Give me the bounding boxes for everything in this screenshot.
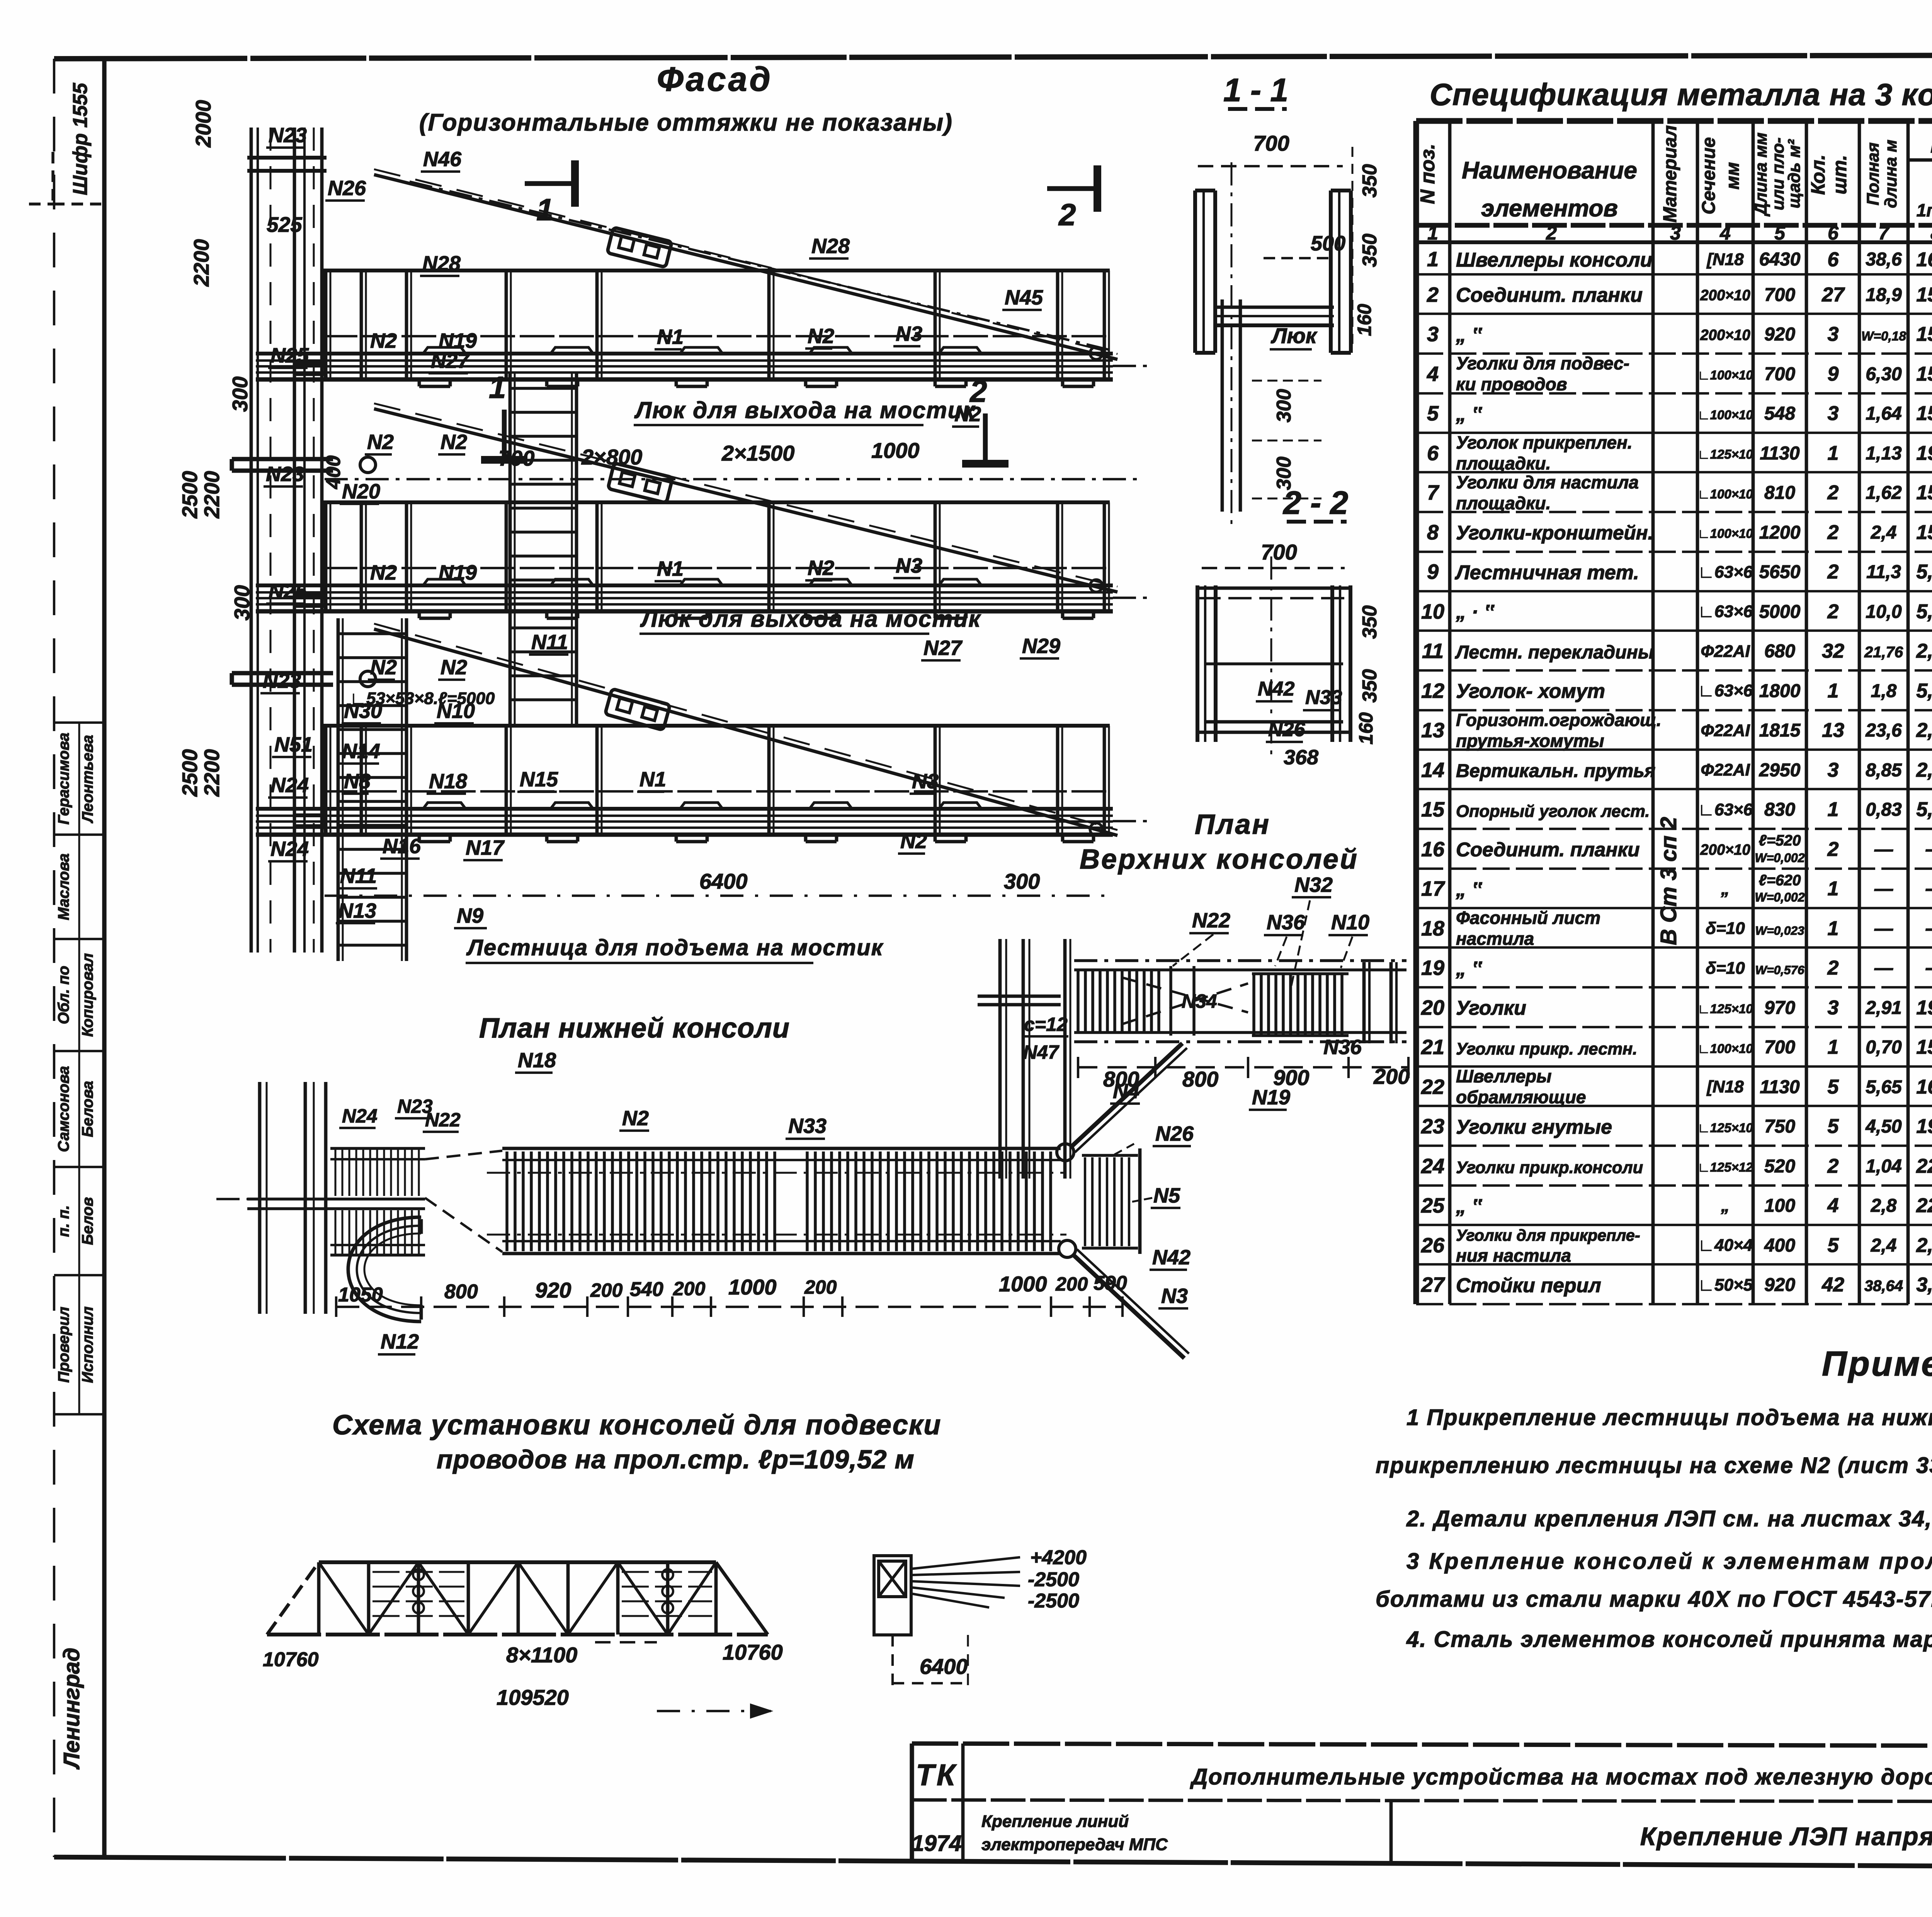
svg-text:4: 4 <box>1427 362 1439 386</box>
svg-text:5,72: 5,72 <box>1916 600 1932 623</box>
svg-text:2,98: 2,98 <box>1916 759 1932 781</box>
svg-text:N24: N24 <box>270 774 309 797</box>
svg-text:Обл. по: Обл. по <box>55 966 72 1024</box>
svg-text:19,1: 19,1 <box>1916 997 1932 1019</box>
svg-text:болтами из стали марки 40Х: болтами из стали марки 40Х по ГОСТ 4543-… <box>1376 1587 1932 1612</box>
svg-text:„ ‟: „ ‟ <box>1456 324 1482 346</box>
svg-text:N2: N2 <box>370 329 397 352</box>
svg-text:Крепление ЛЭП напряжением: Крепление ЛЭП напряжением 25-35 кВ (схем… <box>1640 1822 1932 1851</box>
svg-text:N2: N2 <box>622 1107 649 1130</box>
svg-text:Швеллеры: Швеллеры <box>1456 1066 1551 1086</box>
svg-text:1: 1 <box>1828 878 1839 900</box>
svg-text:100: 100 <box>1764 1196 1795 1216</box>
svg-text:шт.: шт. <box>1829 155 1850 194</box>
svg-text:21: 21 <box>1421 1036 1444 1059</box>
svg-text:—: — <box>1925 838 1932 861</box>
svg-text:„ ‟: „ ‟ <box>1456 878 1482 901</box>
svg-text:15,1: 15,1 <box>1916 402 1932 425</box>
svg-text:N3: N3 <box>1161 1284 1188 1308</box>
svg-text:2: 2 <box>1827 561 1839 583</box>
svg-text:20: 20 <box>1421 996 1444 1019</box>
svg-text:42: 42 <box>1821 1274 1844 1296</box>
svg-text:Верхних консолей: Верхних консолей <box>1080 844 1359 875</box>
svg-text:1: 1 <box>489 370 506 405</box>
svg-text:∟100×10: ∟100×10 <box>1697 526 1753 541</box>
svg-text:2: 2 <box>1546 222 1557 244</box>
svg-text:200: 200 <box>590 1279 623 1301</box>
svg-text:N36: N36 <box>1267 911 1305 934</box>
svg-text:970: 970 <box>1764 998 1795 1018</box>
svg-text:—: — <box>1874 879 1893 899</box>
svg-text:5: 5 <box>1828 1234 1839 1257</box>
svg-text:W=0,18: W=0,18 <box>1861 329 1906 344</box>
svg-text:1000: 1000 <box>999 1272 1047 1296</box>
svg-text:520: 520 <box>1764 1156 1795 1177</box>
svg-text:+4200: +4200 <box>1030 1546 1087 1569</box>
svg-text:[N18: [N18 <box>1706 250 1744 269</box>
svg-text:N2: N2 <box>367 430 394 454</box>
svg-text:Люк для выхода на мостик: Люк для выхода на мостик <box>640 606 981 632</box>
svg-text:200: 200 <box>1055 1273 1088 1295</box>
svg-text:N2: N2 <box>808 556 834 580</box>
svg-text:„ ‟: „ ‟ <box>1456 403 1482 425</box>
svg-text:1800: 1800 <box>1759 681 1801 701</box>
svg-text:920: 920 <box>1764 1275 1795 1295</box>
svg-text:План нижней консоли: План нижней консоли <box>479 1013 790 1044</box>
svg-text:12: 12 <box>1421 679 1444 703</box>
svg-text:16: 16 <box>1421 838 1445 861</box>
svg-text:1,64: 1,64 <box>1866 403 1901 424</box>
svg-text:N4: N4 <box>1113 1080 1139 1103</box>
svg-text:Фасад: Фасад <box>657 60 773 98</box>
svg-text:Лестница для подъема на мо: Лестница для подъема на мостик <box>466 935 884 960</box>
svg-text:Спецификация металла на 3 к: Спецификация металла на 3 консоли со смо… <box>1430 77 1932 112</box>
svg-text:800: 800 <box>444 1281 478 1303</box>
svg-text:Крепление линий: Крепление линий <box>981 1812 1129 1831</box>
svg-text:Швеллеры консоли: Швеллеры консоли <box>1456 249 1652 271</box>
svg-text:4,50: 4,50 <box>1865 1116 1902 1137</box>
svg-text:109520: 109520 <box>497 1685 569 1709</box>
svg-text:Уголки-кронштейн.: Уголки-кронштейн. <box>1456 522 1653 544</box>
svg-text:Кол.: Кол. <box>1807 155 1829 195</box>
svg-text:∟125×10: ∟125×10 <box>1697 1121 1753 1135</box>
svg-text:ния настила: ния настила <box>1456 1245 1571 1266</box>
svg-text:24: 24 <box>1421 1155 1444 1178</box>
svg-text:2,91: 2,91 <box>1865 998 1901 1018</box>
svg-text:-2500: -2500 <box>1028 1568 1079 1591</box>
svg-text:32: 32 <box>1822 640 1844 662</box>
svg-text:Герасимова: Герасимова <box>55 733 72 825</box>
svg-text:350: 350 <box>1359 606 1381 639</box>
svg-text:∟63×6: ∟63×6 <box>1698 602 1753 621</box>
svg-text:∟100×10: ∟100×10 <box>1697 487 1753 501</box>
svg-text:6: 6 <box>1828 248 1839 271</box>
svg-text:2: 2 <box>1827 838 1839 861</box>
svg-text:400: 400 <box>1764 1235 1795 1256</box>
svg-text:5,65: 5,65 <box>1866 1077 1902 1097</box>
svg-text:3: 3 <box>1828 323 1839 345</box>
svg-text:п. п.: п. п. <box>55 1205 72 1237</box>
svg-text:830: 830 <box>1764 799 1795 820</box>
svg-text:6: 6 <box>1427 442 1439 465</box>
svg-text:Лестничная тет.: Лестничная тет. <box>1454 561 1639 584</box>
svg-text:3,77: 3,77 <box>1916 1274 1932 1296</box>
svg-text:15,1: 15,1 <box>1916 481 1932 504</box>
svg-text:∟125×10: ∟125×10 <box>1697 1002 1753 1016</box>
svg-text:5: 5 <box>1427 402 1439 425</box>
svg-text:700: 700 <box>1253 131 1289 155</box>
svg-text:540: 540 <box>630 1278 663 1301</box>
svg-text:N2: N2 <box>900 830 927 853</box>
svg-text:6: 6 <box>1828 222 1839 244</box>
svg-text:Ф22АI: Ф22АI <box>1701 642 1750 661</box>
svg-text:3: 3 <box>1828 997 1839 1019</box>
svg-text:300: 300 <box>230 585 254 621</box>
svg-text:10760: 10760 <box>263 1648 319 1671</box>
svg-text:N25: N25 <box>269 580 307 603</box>
svg-text:2×1500: 2×1500 <box>721 441 794 465</box>
svg-text:ТК: ТК <box>916 1758 957 1792</box>
svg-text:Масса: Масса <box>1930 133 1932 157</box>
svg-text:N2: N2 <box>808 325 834 348</box>
svg-text:160: 160 <box>1355 712 1377 745</box>
svg-text:Самсонова: Самсонова <box>55 1066 72 1152</box>
svg-text:N23: N23 <box>269 124 307 147</box>
svg-text:11,3: 11,3 <box>1866 562 1901 582</box>
svg-text:прикреплению лестницы на с: прикреплению лестницы на схеме N2 (лист … <box>1376 1453 1932 1478</box>
svg-text:Лестн. перекладины: Лестн. перекладины <box>1455 642 1654 663</box>
svg-text:ки проводов: ки проводов <box>1456 374 1567 394</box>
svg-text:1: 1 <box>1828 917 1839 940</box>
svg-text:2,4: 2,4 <box>1871 522 1897 543</box>
svg-text:N18: N18 <box>518 1049 556 1072</box>
svg-text:N3: N3 <box>896 322 922 345</box>
svg-text:300: 300 <box>228 376 252 412</box>
svg-text:4: 4 <box>1827 1194 1839 1217</box>
svg-text:δ=10: δ=10 <box>1706 959 1745 978</box>
svg-text:700: 700 <box>1764 364 1795 384</box>
svg-text:350: 350 <box>1359 164 1381 198</box>
svg-text:W=0,023: W=0,023 <box>1755 924 1804 937</box>
svg-text:1 - 1: 1 - 1 <box>1223 72 1288 108</box>
svg-text:0,70: 0,70 <box>1866 1037 1902 1058</box>
svg-text:2,98: 2,98 <box>1916 719 1932 742</box>
svg-text:1: 1 <box>1828 798 1839 821</box>
svg-text:„: „ <box>1721 1196 1730 1215</box>
svg-text:„ ‟: „ ‟ <box>1456 958 1482 980</box>
svg-text:1 Прикрепление лестницы по: 1 Прикрепление лестницы подъема на нижню… <box>1406 1405 1932 1430</box>
svg-text:∟125×12: ∟125×12 <box>1697 1160 1753 1174</box>
svg-text:„ ‟: „ ‟ <box>1456 1195 1482 1218</box>
svg-text:∟100×10: ∟100×10 <box>1697 408 1753 422</box>
svg-text:Леонтьева: Леонтьева <box>79 735 96 823</box>
svg-text:Копировал: Копировал <box>79 953 96 1037</box>
svg-text:15,1: 15,1 <box>1916 1036 1932 1058</box>
svg-text:N2: N2 <box>370 561 397 584</box>
svg-text:300: 300 <box>1273 389 1295 423</box>
svg-text:3 Крепление консолей к эле: 3 Крепление консолей к элементам пролетн… <box>1406 1549 1932 1574</box>
svg-text:160: 160 <box>1354 304 1375 336</box>
svg-text:N51: N51 <box>274 733 313 756</box>
svg-text:[N18: [N18 <box>1706 1077 1744 1096</box>
svg-text:проводов на прол.стр. ℓр=10: проводов на прол.стр. ℓр=109,52 м <box>437 1445 915 1474</box>
svg-text:400: 400 <box>322 456 345 490</box>
svg-text:N23: N23 <box>263 669 301 692</box>
svg-text:368: 368 <box>1284 746 1318 769</box>
svg-text:Люк для выхода на мостик: Люк для выхода на мостик <box>634 397 975 423</box>
svg-text:5,72: 5,72 <box>1916 561 1932 583</box>
svg-text:2,42: 2,42 <box>1916 1234 1932 1257</box>
svg-text:200: 200 <box>804 1276 837 1298</box>
svg-text:Белов: Белов <box>79 1197 96 1245</box>
svg-text:Уголки прикр. лестн.: Уголки прикр. лестн. <box>1456 1040 1637 1058</box>
svg-text:1130: 1130 <box>1760 1077 1800 1097</box>
svg-text:21,76: 21,76 <box>1864 644 1903 661</box>
svg-text:(Горизонтальные оттяжки не: (Горизонтальные оттяжки не показаны) <box>419 109 953 136</box>
svg-text:27: 27 <box>1421 1273 1446 1296</box>
svg-text:13: 13 <box>1822 719 1844 742</box>
svg-text:Фасонный лист: Фасонный лист <box>1456 908 1600 928</box>
svg-text:1,04: 1,04 <box>1866 1156 1901 1177</box>
svg-text:N28: N28 <box>811 235 850 258</box>
svg-text:Шифр 1555: Шифр 1555 <box>69 83 92 196</box>
svg-text:8×1100: 8×1100 <box>506 1643 577 1667</box>
svg-text:7: 7 <box>1427 481 1440 504</box>
svg-text:1: 1 <box>1427 248 1439 271</box>
svg-text:N5: N5 <box>1153 1184 1180 1207</box>
svg-text:N33: N33 <box>1305 686 1342 709</box>
svg-text:-2500: -2500 <box>1028 1590 1079 1612</box>
svg-text:Исполнил: Исполнил <box>79 1306 96 1383</box>
svg-text:2: 2 <box>1827 957 1839 979</box>
svg-text:0,83: 0,83 <box>1866 799 1902 820</box>
svg-text:11: 11 <box>1422 640 1444 663</box>
svg-text:16,3: 16,3 <box>1916 1076 1932 1098</box>
svg-text:N42: N42 <box>1258 678 1294 700</box>
svg-text:„ · ‟: „ · ‟ <box>1456 601 1495 623</box>
svg-text:—: — <box>1925 957 1932 979</box>
svg-text:элементов: элементов <box>1481 195 1618 222</box>
svg-text:25: 25 <box>1421 1194 1445 1217</box>
svg-text:1,13: 1,13 <box>1866 443 1902 464</box>
svg-text:5: 5 <box>1828 1076 1839 1098</box>
svg-text:7: 7 <box>1878 222 1890 244</box>
svg-text:1: 1 <box>1427 222 1438 244</box>
svg-text:Стойки перил: Стойки перил <box>1456 1274 1601 1297</box>
svg-text:N16: N16 <box>383 835 421 858</box>
svg-text:1815: 1815 <box>1759 720 1801 741</box>
svg-text:8: 8 <box>1930 222 1932 244</box>
svg-text:200: 200 <box>673 1278 706 1300</box>
svg-text:c=12: c=12 <box>1024 1014 1068 1035</box>
svg-text:∟63×6: ∟63×6 <box>1698 563 1753 582</box>
svg-text:∟63×6: ∟63×6 <box>1698 800 1753 819</box>
svg-text:1200: 1200 <box>1759 522 1801 543</box>
svg-text:1: 1 <box>1828 1036 1839 1058</box>
svg-text:6400: 6400 <box>699 869 748 893</box>
svg-text:N14: N14 <box>342 740 380 763</box>
svg-text:2: 2 <box>1427 283 1439 306</box>
svg-text:N27: N27 <box>923 636 963 660</box>
svg-text:1000: 1000 <box>728 1275 777 1299</box>
svg-text:Материал: Материал <box>1660 125 1680 223</box>
svg-text:22,7: 22,7 <box>1916 1155 1932 1177</box>
svg-text:Уголок- хомут: Уголок- хомут <box>1456 680 1605 703</box>
svg-text:N1: N1 <box>657 325 684 349</box>
svg-text:1974: 1974 <box>912 1831 961 1856</box>
svg-text:19,1: 19,1 <box>1916 1115 1932 1138</box>
svg-text:Примечания:: Примечания: <box>1822 1345 1932 1383</box>
svg-text:настила: настила <box>1456 929 1534 949</box>
svg-text:Вертикальн. прутья: Вертикальн. прутья <box>1456 760 1655 781</box>
svg-text:—: — <box>1874 919 1893 939</box>
svg-text:∟125×10: ∟125×10 <box>1697 447 1753 461</box>
svg-text:N19: N19 <box>439 561 477 584</box>
svg-text:15,7: 15,7 <box>1916 323 1932 345</box>
svg-text:3: 3 <box>1828 402 1839 425</box>
svg-text:10: 10 <box>1421 600 1444 623</box>
svg-text:N9: N9 <box>457 904 483 927</box>
svg-text:N1: N1 <box>657 557 684 580</box>
svg-text:N19: N19 <box>1252 1086 1290 1109</box>
svg-text:прутья-хомуты: прутья-хомуты <box>1456 731 1604 751</box>
svg-text:N13: N13 <box>338 899 376 922</box>
svg-text:810: 810 <box>1764 483 1795 503</box>
svg-text:17: 17 <box>1421 877 1446 900</box>
svg-text:ℓ=520: ℓ=520 <box>1759 832 1801 849</box>
svg-text:Уголки гнутые: Уголки гнутые <box>1456 1116 1612 1138</box>
svg-text:Опорный уголок лест.: Опорный уголок лест. <box>1456 802 1650 821</box>
svg-text:2: 2 <box>1827 481 1839 504</box>
svg-text:200×10: 200×10 <box>1700 327 1750 344</box>
svg-text:350: 350 <box>1359 234 1381 267</box>
svg-text:∟53×53×8.ℓ=5000: ∟53×53×8.ℓ=5000 <box>350 689 495 708</box>
svg-text:N18: N18 <box>429 770 467 793</box>
svg-text:9: 9 <box>1828 363 1839 385</box>
svg-text:1000: 1000 <box>871 438 920 463</box>
svg-text:6,30: 6,30 <box>1866 364 1902 384</box>
svg-text:548: 548 <box>1764 403 1795 424</box>
svg-text:5,72: 5,72 <box>1916 680 1932 702</box>
svg-text:N20: N20 <box>342 480 380 503</box>
svg-text:Дополнительные устройства н: Дополнительные устройства на мостах под … <box>1190 1764 1932 1789</box>
svg-text:5: 5 <box>1828 1115 1839 1138</box>
svg-text:590: 590 <box>1094 1272 1127 1294</box>
svg-text:200×10: 200×10 <box>1700 842 1750 858</box>
svg-text:3: 3 <box>1828 759 1839 781</box>
svg-text:525: 525 <box>267 213 303 236</box>
svg-text:6430: 6430 <box>1759 249 1801 270</box>
svg-text:Люк: Люк <box>1270 323 1318 348</box>
svg-text:N24: N24 <box>270 837 309 861</box>
svg-text:электропередач МПС: электропередач МПС <box>981 1835 1168 1854</box>
svg-text:N2: N2 <box>440 656 467 679</box>
svg-text:Уголки: Уголки <box>1456 997 1526 1019</box>
svg-text:1,8: 1,8 <box>1871 681 1897 701</box>
svg-text:22: 22 <box>1421 1075 1444 1099</box>
svg-text:Соединит. планки: Соединит. планки <box>1456 839 1640 861</box>
svg-text:N19: N19 <box>439 329 477 352</box>
svg-text:N поз.: N поз. <box>1417 144 1439 204</box>
svg-text:N46: N46 <box>423 148 462 171</box>
svg-text:38,6: 38,6 <box>1866 249 1902 270</box>
svg-text:N47: N47 <box>1023 1041 1060 1063</box>
svg-text:длина м: длина м <box>1881 139 1900 208</box>
svg-text:19: 19 <box>1421 956 1444 980</box>
svg-text:δ=10: δ=10 <box>1706 919 1745 938</box>
svg-text:N17: N17 <box>466 836 505 859</box>
svg-text:Ленинград: Ленинград <box>59 1648 84 1770</box>
svg-text:13: 13 <box>1421 719 1444 742</box>
svg-text:680: 680 <box>1764 641 1795 662</box>
svg-text:1: 1 <box>1828 680 1839 702</box>
svg-text:1п.м: 1п.м <box>1917 200 1932 220</box>
svg-text:N36: N36 <box>1323 1036 1362 1059</box>
svg-text:В Ст 3 сп 2: В Ст 3 сп 2 <box>1656 817 1681 945</box>
svg-text:2000: 2000 <box>191 100 215 148</box>
svg-text:10,0: 10,0 <box>1866 602 1902 622</box>
svg-text:300: 300 <box>1004 869 1040 893</box>
svg-text:1050: 1050 <box>338 1284 383 1306</box>
svg-text:N34: N34 <box>1182 990 1217 1012</box>
svg-text:N22: N22 <box>425 1109 461 1131</box>
svg-text:∟63×6: ∟63×6 <box>1698 681 1753 700</box>
svg-text:Наименование: Наименование <box>1462 157 1637 184</box>
svg-text:W=0,002: W=0,002 <box>1755 890 1805 904</box>
svg-text:∟100×10: ∟100×10 <box>1697 368 1753 382</box>
svg-text:8: 8 <box>1427 521 1439 544</box>
svg-text:4. Сталь элементов консолей: 4. Сталь элементов консолей принята марк… <box>1406 1627 1932 1652</box>
svg-text:2: 2 <box>1827 1155 1839 1177</box>
svg-text:N28: N28 <box>422 252 461 275</box>
svg-text:N32: N32 <box>1294 873 1333 896</box>
svg-text:2×800: 2×800 <box>581 445 642 469</box>
svg-text:26: 26 <box>1421 1234 1445 1257</box>
svg-text:1: 1 <box>1828 442 1839 464</box>
svg-text:23: 23 <box>1421 1115 1444 1138</box>
svg-text:обрамляющие: обрамляющие <box>1456 1087 1586 1107</box>
svg-text:5,72: 5,72 <box>1916 798 1932 821</box>
svg-text:23,6: 23,6 <box>1865 720 1902 741</box>
svg-text:N24: N24 <box>342 1105 378 1127</box>
svg-text:Ф22АI: Ф22АI <box>1701 721 1750 740</box>
svg-text:15,7: 15,7 <box>1916 284 1932 306</box>
svg-text:N8: N8 <box>344 770 371 793</box>
svg-text:Уголки для настила: Уголки для настила <box>1456 472 1639 492</box>
svg-text:15: 15 <box>1421 798 1445 821</box>
svg-text:1: 1 <box>536 192 554 227</box>
svg-text:350: 350 <box>1359 669 1381 703</box>
svg-text:∟40×4: ∟40×4 <box>1698 1236 1753 1255</box>
svg-text:Проверил: Проверил <box>55 1306 72 1383</box>
svg-text:1130: 1130 <box>1760 443 1800 464</box>
svg-text:10760: 10760 <box>723 1640 783 1664</box>
svg-text:2500: 2500 <box>178 471 202 519</box>
svg-text:3: 3 <box>1427 323 1439 346</box>
svg-text:площадки.: площадки. <box>1456 493 1551 513</box>
svg-text:N23: N23 <box>266 463 304 486</box>
svg-text:—: — <box>1874 839 1893 860</box>
svg-text:Схема установки консолей дл: Схема установки консолей для подвески <box>332 1410 941 1441</box>
svg-text:2: 2 <box>1827 600 1839 623</box>
svg-text:—: — <box>1925 917 1932 940</box>
svg-text:N22: N22 <box>1192 909 1230 932</box>
svg-text:Уголки для подвес-: Уголки для подвес- <box>1456 353 1629 373</box>
svg-text:920: 920 <box>535 1278 571 1302</box>
svg-text:ℓ=620: ℓ=620 <box>1759 872 1801 889</box>
svg-text:∟100×10: ∟100×10 <box>1697 1041 1753 1056</box>
svg-text:750: 750 <box>1764 1116 1795 1137</box>
